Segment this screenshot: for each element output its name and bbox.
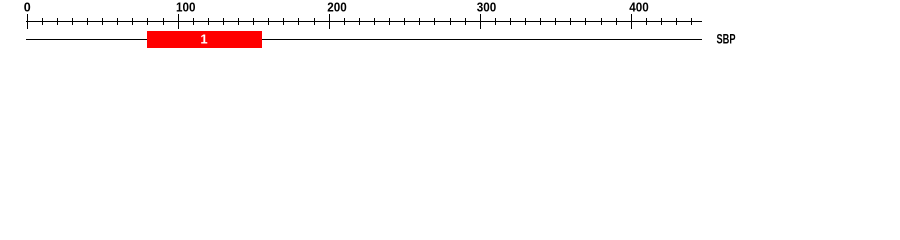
- minor tick 440: [691, 18, 692, 25]
- minor tick 280: [450, 18, 451, 25]
- minor tick 250: [404, 18, 405, 25]
- minor tick 330: [525, 18, 526, 25]
- svg-text:SBP: SBP: [717, 32, 736, 47]
- svg-text:0: 0: [24, 1, 31, 15]
- minor tick 260: [419, 18, 420, 25]
- minor tick 40: [87, 18, 88, 25]
- svg-text:1: 1: [200, 32, 207, 47]
- minor tick 270: [434, 18, 435, 25]
- minor tick 140: [238, 18, 239, 25]
- minor tick 50: [102, 18, 103, 25]
- minor tick 430: [676, 18, 677, 25]
- feature box 1 (red): [147, 31, 262, 48]
- minor tick 30: [72, 18, 73, 25]
- minor tick 180: [298, 18, 299, 25]
- minor tick 360: [570, 18, 571, 25]
- minor tick 240: [389, 18, 390, 25]
- minor tick 340: [540, 18, 541, 25]
- minor tick 390: [616, 18, 617, 25]
- background: [0, 0, 900, 58]
- minor tick 110: [193, 18, 194, 25]
- minor tick 230: [374, 18, 375, 25]
- minor tick 20: [57, 18, 58, 25]
- minor tick 130: [223, 18, 224, 25]
- minor tick 220: [359, 18, 360, 25]
- minor tick 310: [495, 18, 496, 25]
- minor tick 150: [253, 18, 254, 25]
- minor tick 70: [132, 18, 133, 25]
- ruler axis line: [26, 21, 702, 22]
- svg-text:100: 100: [176, 1, 196, 15]
- minor tick 210: [344, 18, 345, 25]
- minor tick 350: [555, 18, 556, 25]
- minor tick 370: [585, 18, 586, 25]
- minor tick 410: [646, 18, 647, 25]
- minor tick 290: [465, 18, 466, 25]
- svg-text:400: 400: [629, 1, 649, 15]
- major tick 400: [631, 14, 632, 29]
- feature track baseline wire: [26, 39, 702, 40]
- minor tick 10: [42, 18, 43, 25]
- svg-text:300: 300: [477, 1, 497, 15]
- minor tick 160: [268, 18, 269, 25]
- minor tick 190: [314, 18, 315, 25]
- minor tick 380: [601, 18, 602, 25]
- svg-text:200: 200: [327, 1, 347, 15]
- minor tick 80: [147, 18, 148, 25]
- major tick 300: [480, 14, 481, 29]
- minor tick 170: [283, 18, 284, 25]
- major tick 100: [178, 14, 179, 29]
- major tick 200: [329, 14, 330, 29]
- minor tick 320: [510, 18, 511, 25]
- minor tick 60: [117, 18, 118, 25]
- minor tick 420: [661, 18, 662, 25]
- minor tick 90: [163, 18, 164, 25]
- minor tick 120: [208, 18, 209, 25]
- major tick 0: [27, 14, 28, 29]
